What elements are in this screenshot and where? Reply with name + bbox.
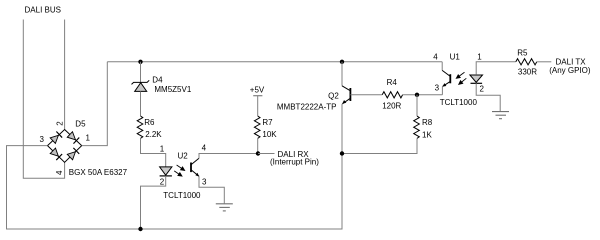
wire bridge pin1 to top rail	[82, 62, 108, 146]
wire R5 to DALI TX	[537, 61, 552, 63]
svg-text:R6: R6	[144, 118, 155, 127]
svg-text:+5V: +5V	[250, 85, 265, 94]
svg-text:4: 4	[433, 52, 438, 61]
svg-text:TCLT1000: TCLT1000	[440, 98, 478, 107]
wire R7 to DALI RX node	[257, 139, 259, 154]
phototransistor U2	[190, 163, 192, 173]
svg-text:2.2K: 2.2K	[145, 130, 162, 139]
resistor R7	[254, 116, 260, 138]
svg-text:330R: 330R	[518, 68, 537, 77]
svg-text:R5: R5	[517, 48, 528, 57]
resistor R4	[382, 92, 402, 98]
svg-text:10K: 10K	[262, 130, 277, 139]
wire D4 to R6	[140, 91, 142, 116]
LED of U2	[160, 167, 172, 175]
wire U1 pin1 to R5	[476, 62, 516, 75]
wire D4 top	[140, 62, 142, 83]
svg-text:3: 3	[202, 178, 207, 187]
svg-text:MMBT2222A-TP: MMBT2222A-TP	[277, 103, 337, 112]
svg-text:1: 1	[477, 52, 482, 61]
svg-text:R4: R4	[387, 78, 398, 87]
LED of U1	[470, 75, 483, 82]
wire R4 to U1 pin3	[403, 94, 443, 96]
svg-text:2: 2	[480, 85, 485, 94]
optocoupler U2	[160, 158, 200, 176]
node junction top rail / D4	[138, 60, 142, 64]
diode D5d (4 to 1, lower-right edge)	[67, 148, 79, 160]
svg-text:(Interrupt Pin): (Interrupt Pin)	[270, 158, 319, 167]
wire bridge pin3 to bottom rail	[7, 104, 343, 229]
node junction R4/R8	[415, 93, 419, 97]
svg-text:R7: R7	[262, 118, 273, 127]
node junction bottom rail	[138, 227, 142, 231]
wire U1 emitter to R4 junction	[441, 86, 443, 94]
svg-text:4: 4	[55, 170, 64, 175]
wire U1 pin2 to ground	[476, 83, 500, 111]
resistor R6	[137, 116, 143, 138]
svg-text:3: 3	[435, 84, 440, 93]
wire U2 pin2 to bottom rail	[141, 176, 166, 229]
light arrows U2	[174, 165, 184, 176]
svg-text:D5: D5	[75, 119, 86, 128]
wire R6 to U2 pin1	[141, 139, 166, 167]
resistor R5	[516, 59, 537, 65]
light arrows U1	[456, 72, 466, 84]
svg-text:(Any GPIO): (Any GPIO)	[549, 66, 591, 75]
wire R8 bottom to Q2 emitter line	[342, 139, 417, 154]
ground U2	[216, 204, 233, 211]
svg-text:BGX 50A E6327: BGX 50A E6327	[69, 168, 128, 177]
zener diode D4	[132, 80, 150, 91]
node junction top rail / Q2 collector	[340, 60, 344, 64]
wire +5V to R7	[257, 96, 259, 116]
wire DALI bus left line down to bridge pin4	[23, 20, 64, 179]
svg-text:TCLT1000: TCLT1000	[163, 191, 201, 200]
svg-text:DALI BUS: DALI BUS	[25, 5, 61, 14]
svg-text:D4: D4	[152, 75, 163, 84]
svg-text:2: 2	[160, 177, 165, 186]
transistor Q2	[342, 86, 350, 104]
diode D5a (3 to 2, upper-left edge)	[50, 131, 62, 143]
wire Q2 base to R4	[350, 94, 382, 96]
wire DALI RX stub	[258, 153, 275, 155]
phototransistor U1	[449, 74, 451, 83]
svg-text:1: 1	[160, 144, 165, 153]
wire U2 pin3 to ground	[199, 176, 224, 203]
diode D5b (2 to 1, upper-right edge)	[67, 131, 79, 143]
svg-text:4: 4	[202, 144, 207, 153]
svg-text:U2: U2	[178, 152, 189, 161]
wire DALI bus right line down to bridge pin2	[64, 20, 66, 130]
wire Q2 collector	[341, 62, 343, 86]
svg-text:3: 3	[40, 135, 45, 144]
svg-text:U1: U1	[450, 52, 461, 61]
node junction emitter/R8	[340, 151, 344, 155]
svg-text:1K: 1K	[422, 130, 432, 139]
resistor R8	[416, 95, 418, 116]
svg-text:2: 2	[56, 121, 65, 126]
wire U2 pin4 to DALI RX node	[199, 154, 258, 159]
wire top rail	[107, 61, 442, 63]
wire U1 pin4 drop	[441, 62, 443, 71]
bridge rectifier D5	[48, 130, 82, 163]
ground U1	[492, 112, 509, 119]
power +5V bar	[253, 95, 262, 97]
node junction DALI RX	[256, 151, 260, 155]
diode D5c (3 to 4, lower-left edge)	[50, 148, 62, 160]
svg-text:120R: 120R	[382, 102, 401, 111]
svg-text:Q2: Q2	[328, 91, 339, 100]
svg-text:R8: R8	[422, 118, 433, 127]
svg-text:1: 1	[86, 134, 91, 143]
svg-text:MM5Z5V1: MM5Z5V1	[154, 85, 191, 94]
